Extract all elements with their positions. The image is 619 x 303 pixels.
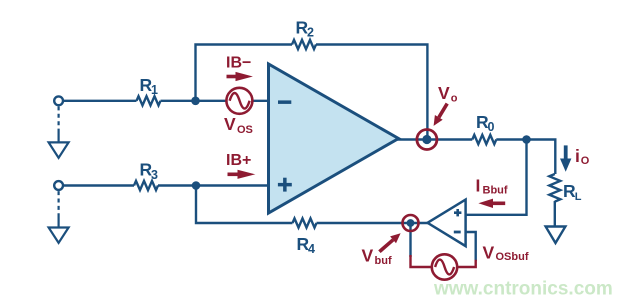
svg-text:i: i xyxy=(575,146,580,166)
svg-text:2: 2 xyxy=(307,26,314,40)
svg-text:IB+: IB+ xyxy=(226,152,251,169)
svg-text:3: 3 xyxy=(151,168,158,182)
VOS sine wave xyxy=(230,93,250,109)
buffer plus sign xyxy=(454,211,461,214)
node Vbuf ring xyxy=(403,215,419,231)
wire R1 to VOS xyxy=(161,100,228,102)
wire RL to ground xyxy=(554,201,556,227)
resistor R1 xyxy=(137,96,161,105)
node Vo ring xyxy=(417,130,437,150)
wire R0 to output junction and to RL branch xyxy=(496,140,555,175)
junction dot output of R0 xyxy=(522,135,531,144)
wire R2 to output node xyxy=(316,45,427,140)
svg-text:buf: buf xyxy=(375,255,392,267)
source VOS circle xyxy=(226,88,252,114)
ground top-left xyxy=(49,142,69,157)
arrow IBbuf pointing left xyxy=(491,202,505,206)
wire branch down to R4 xyxy=(196,186,293,224)
svg-text:OSbuf: OSbuf xyxy=(496,251,529,263)
ground under RL xyxy=(546,227,566,244)
buffer op-amp U2 triangle xyxy=(428,200,466,247)
resistor RL vertical xyxy=(549,174,560,202)
wire R4 to buffer output node xyxy=(317,222,429,224)
svg-text:V: V xyxy=(224,114,236,134)
ground bottom-left xyxy=(49,228,69,243)
op-amp U1 triangle xyxy=(269,64,399,213)
resistor R4 xyxy=(293,218,317,227)
svg-text:OS: OS xyxy=(237,124,253,136)
svg-text:4: 4 xyxy=(308,242,315,256)
wire op-amp output to R0 xyxy=(397,138,472,140)
svg-text:0: 0 xyxy=(488,120,495,134)
arrow iO xyxy=(564,145,568,160)
svg-text:Bbuf: Bbuf xyxy=(483,185,508,197)
junction dot noninverting input node xyxy=(192,181,201,190)
svg-text:V: V xyxy=(483,243,495,263)
dashed wire to ground top xyxy=(57,106,59,131)
svg-text:o: o xyxy=(451,93,458,105)
svg-text:V: V xyxy=(438,83,450,103)
op-amp plus sign xyxy=(278,183,292,187)
terminal input top xyxy=(54,96,63,105)
wire VOSbuf loop red right side xyxy=(457,260,476,267)
wire feedback loop up and across (R2 net) xyxy=(196,45,293,101)
arrow Vo pointing to node xyxy=(439,104,447,118)
resistor R2 xyxy=(292,40,316,49)
svg-text:L: L xyxy=(575,191,582,203)
wire VOSbuf loop red left side xyxy=(411,255,433,267)
svg-text:IB−: IB− xyxy=(226,55,251,72)
junction dot inverting input node xyxy=(191,97,200,106)
arrow IB+ xyxy=(228,173,241,177)
svg-text:www.cntronics.com: www.cntronics.com xyxy=(433,279,613,300)
arrow Vbuf pointing to node xyxy=(379,240,393,252)
wire Vbuf node down xyxy=(409,223,411,257)
arrow IB- xyxy=(227,75,239,79)
resistor R3 xyxy=(134,181,158,190)
terminal input bottom xyxy=(54,181,63,190)
wire input top from terminal to R1 xyxy=(64,100,137,102)
op-amp minus sign xyxy=(278,100,291,104)
dashed wire to ground bottom xyxy=(57,191,59,216)
svg-text:V: V xyxy=(362,246,374,266)
wire input bottom from terminal to R3 xyxy=(64,184,134,186)
wire buffer minus input loop xyxy=(466,232,476,261)
resistor R0 xyxy=(472,135,496,144)
buffer minus sign xyxy=(454,231,461,234)
VOSbuf sine wave xyxy=(435,260,454,275)
wire VOS to op-amp minus input xyxy=(252,100,269,102)
wire R3 to op-amp plus input xyxy=(158,184,269,186)
source VOSbuf circle xyxy=(432,254,457,279)
svg-text:O: O xyxy=(581,155,590,167)
svg-text:I: I xyxy=(476,176,481,196)
svg-text:1: 1 xyxy=(151,83,158,97)
wire junction down to buffer plus input xyxy=(466,140,527,215)
